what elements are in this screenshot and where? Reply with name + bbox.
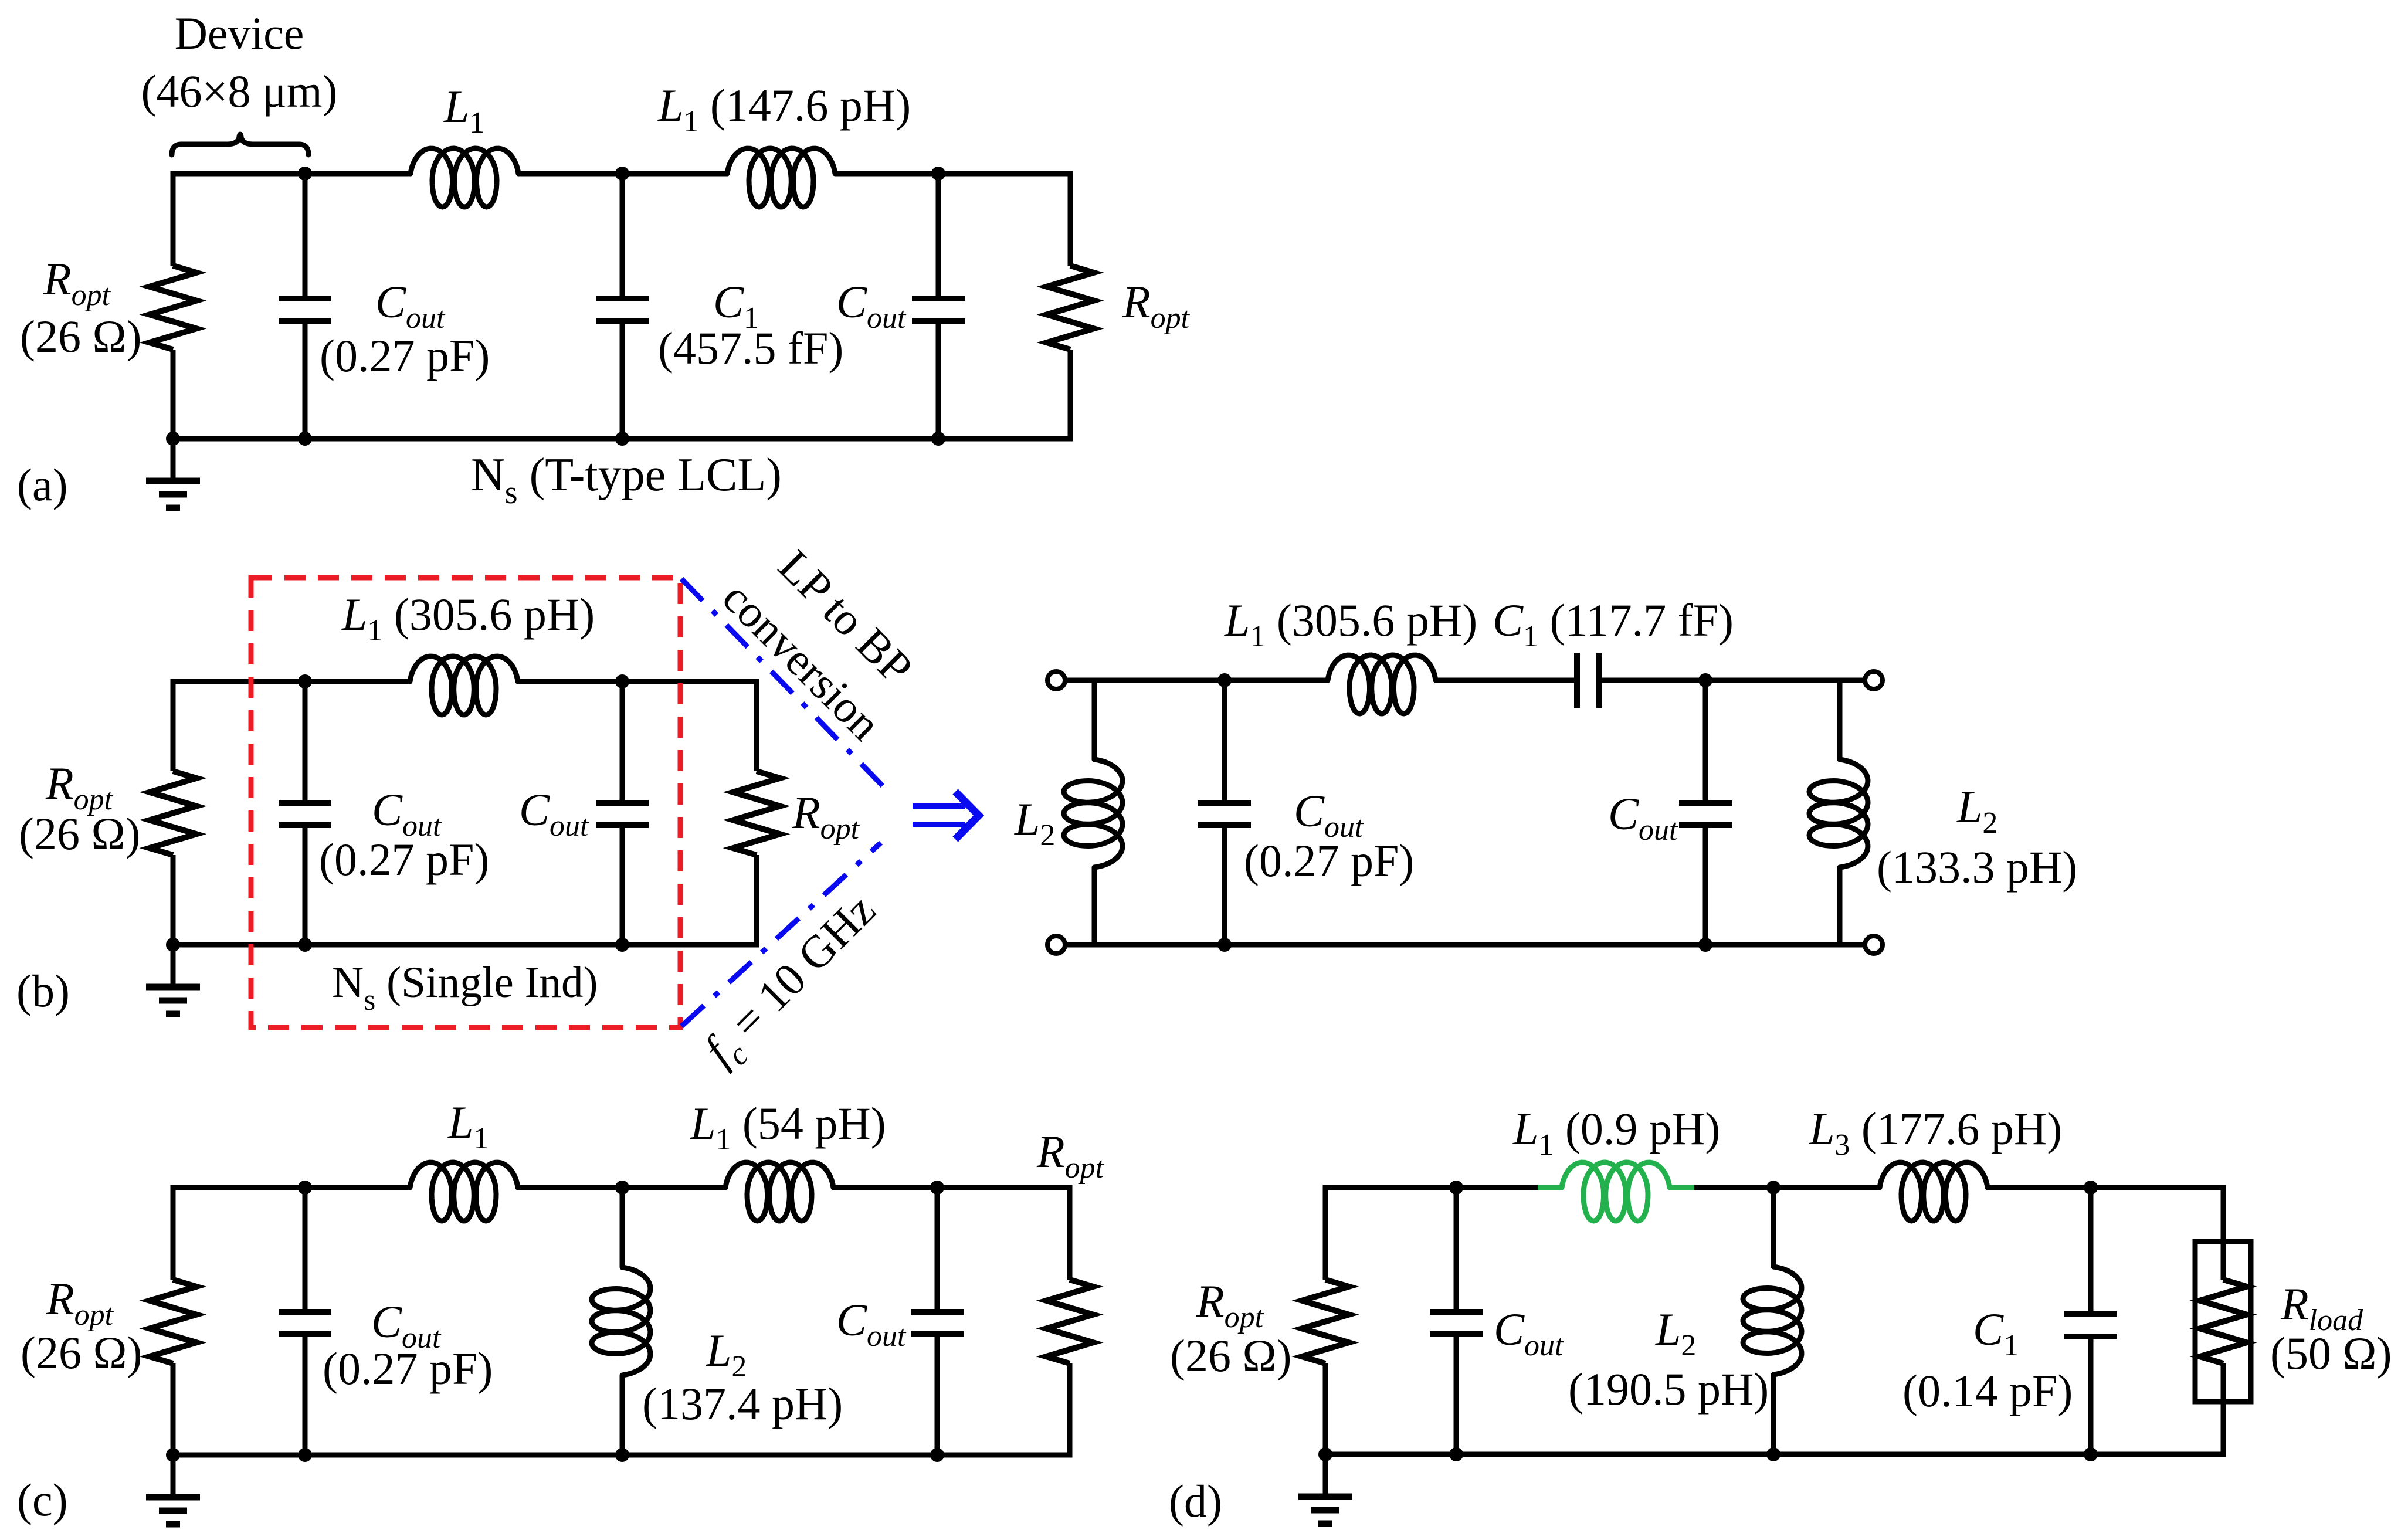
node (d) bottom junction 3	[2084, 1447, 2098, 1461]
wire (d) green stub right	[1669, 1185, 1694, 1190]
node (b) bottom junction 2	[615, 938, 629, 952]
wire (a) right vertical upper	[1068, 174, 1073, 266]
resistor Ropt (d)	[1302, 1280, 1349, 1363]
resistor Ropt (a) right	[1047, 266, 1094, 350]
resistor Ropt (c) right	[1046, 1280, 1093, 1363]
wire (br) L2 right upper stub	[1837, 680, 1843, 759]
svg-text:(a): (a)	[17, 459, 68, 510]
svg-text:(26 Ω): (26 Ω)	[19, 808, 140, 859]
node (b) top junction 1	[298, 674, 312, 688]
inductor L1 (a) second (147.6 pH)	[727, 148, 835, 207]
wire (c) left vertical lower	[171, 1363, 176, 1455]
wire (d) top rail segment 1	[1323, 1185, 1538, 1190]
wire (d) right vertical upper	[2221, 1188, 2226, 1242]
wire (br) top rail segment 1	[1065, 678, 1328, 683]
capacitor C1 (d) (0.14 pF)	[2088, 1188, 2094, 1314]
wire (d) green stub left	[1538, 1185, 1562, 1190]
resistor Rload (d) (50 Ω)	[2200, 1280, 2247, 1363]
terminal (b) bottom-right	[1865, 936, 1883, 954]
node (a) bottom junction 2	[615, 432, 629, 446]
inductor L3 (d) (177.6 pH)	[1880, 1162, 1988, 1221]
wire (d) Rload inner lower	[2221, 1363, 2226, 1402]
inductor L1 (br) (305.6 pH)	[1328, 655, 1436, 714]
resistor Ropt (b) left	[150, 771, 196, 855]
wire (d) L2 upper stub	[1771, 1188, 1776, 1267]
wire (d) L2 lower stub	[1771, 1375, 1776, 1454]
ground (a)	[171, 439, 176, 481]
wire (b) top rail segment 1	[171, 679, 411, 684]
svg-text:(46×8 μm): (46×8 μm)	[141, 66, 338, 117]
node (c) bottom junction 2	[615, 1448, 629, 1462]
node (br) top junction 2	[1698, 673, 1712, 687]
wire (br) top rail segment 2	[1436, 678, 1577, 683]
node (br) top junction 1	[1217, 673, 1232, 687]
wire (a) right vertical lower	[1068, 350, 1073, 439]
node (c) bottom junction 3	[930, 1448, 944, 1462]
inductor L1 (d) green (0.9 pH)	[1562, 1162, 1670, 1221]
inductor L1 (c) second (54 pH)	[725, 1162, 833, 1221]
wire (d) right vertical lower	[2221, 1402, 2226, 1454]
svg-text:(0.27 pF): (0.27 pF)	[319, 834, 489, 885]
label fc = 10 GHz (rotated)	[694, 884, 891, 1081]
node (a) top junction 2	[615, 167, 629, 181]
capacitor C1 (br) series (117.7 fF)	[1577, 653, 1599, 708]
node (a) bottom junction 1	[298, 432, 312, 446]
wire (c) L2 lower stub	[620, 1375, 625, 1455]
node (d) top junction 2	[1766, 1181, 1780, 1195]
inductor L2 (d) (190.5 pH)	[1743, 1267, 1802, 1375]
node (c) bottom ground junction	[166, 1448, 180, 1462]
terminal (b) top-left	[1047, 671, 1065, 689]
inductor L2 (br) right	[1809, 759, 1868, 867]
node (d) top junction 3	[2084, 1181, 2098, 1195]
wire (d) left vertical upper	[1323, 1188, 1328, 1280]
node (c) top junction 3	[930, 1181, 944, 1195]
wire (c) right vertical upper	[1067, 1188, 1073, 1280]
node (d) bottom junction 2	[1766, 1447, 1780, 1461]
wire (c) top rail segment 3	[833, 1185, 1073, 1190]
svg-text:(0.14 pF): (0.14 pF)	[1902, 1365, 2073, 1416]
node (a) top junction 1	[298, 167, 312, 181]
wire (b) left vertical upper	[171, 681, 176, 771]
svg-text:(137.4 pH): (137.4 pH)	[642, 1378, 843, 1429]
node (b) bottom junction 1	[298, 938, 312, 952]
svg-text:(26 Ω): (26 Ω)	[21, 1327, 142, 1378]
wire (c) left vertical upper	[171, 1188, 176, 1280]
svg-text:(0.27 pF): (0.27 pF)	[1244, 835, 1414, 886]
svg-text:(d): (d)	[1169, 1475, 1222, 1527]
terminal (b) top-right	[1865, 671, 1883, 689]
wire (c) top rail segment 2	[518, 1185, 725, 1190]
blue dash-dot line lower	[681, 843, 881, 1026]
wire (b) right vertical lower	[754, 855, 759, 945]
wire (b) right vertical upper	[754, 681, 759, 771]
box around Rload	[2195, 1242, 2251, 1402]
node (c) top junction 2	[615, 1181, 629, 1195]
svg-text:(190.5 pH): (190.5 pH)	[1568, 1363, 1769, 1415]
node (br) bottom junction 1	[1217, 938, 1232, 952]
capacitor Cout (br) left	[1222, 680, 1227, 803]
resistor Ropt (b) right	[733, 771, 780, 855]
svg-text:(50 Ω): (50 Ω)	[2270, 1328, 2391, 1379]
node (d) bottom junction 1	[1449, 1447, 1463, 1461]
svg-text:Device: Device	[175, 8, 304, 59]
capacitor Cout (br) right	[1703, 680, 1708, 803]
wire (c) top rail segment 1	[171, 1185, 411, 1190]
node (a) top junction 3	[931, 167, 945, 181]
ground (d)	[1323, 1454, 1328, 1497]
inductor L1 (a) first	[411, 148, 518, 207]
wire (a) bottom rail	[171, 436, 1073, 442]
wire (c) bottom rail	[171, 1453, 1073, 1458]
capacitor Cout (b) left	[303, 681, 308, 803]
wire (b) bottom rail	[171, 942, 759, 948]
wire (d) top rail segment 3	[1988, 1185, 2226, 1190]
blue double arrow	[913, 792, 979, 839]
wire (d) Rload inner upper	[2221, 1242, 2226, 1280]
wire (c) L2 upper stub	[620, 1188, 625, 1267]
node (b) bottom ground junction	[166, 938, 180, 952]
svg-text:(c): (c)	[17, 1474, 68, 1525]
blue dash-dot line upper	[681, 579, 883, 786]
red dashed box around Ns network	[251, 578, 680, 1027]
wire (d) bottom rail	[1323, 1452, 2226, 1457]
node (c) bottom junction 1	[298, 1448, 312, 1462]
svg-text:(133.3 pH): (133.3 pH)	[1877, 842, 2077, 893]
capacitor Cout (d)	[1454, 1188, 1459, 1312]
svg-text:(0.27 pF): (0.27 pF)	[320, 330, 490, 381]
node (br) bottom junction 2	[1698, 938, 1712, 952]
wire (d) top rail segment 2	[1694, 1185, 1880, 1190]
wire (d) left vertical lower	[1323, 1363, 1328, 1454]
wire (br) L2 left upper stub	[1092, 680, 1097, 759]
capacitor C1 (a) (457.5 fF)	[620, 174, 625, 298]
terminal (b) bottom-left	[1047, 936, 1065, 954]
inductor L1 (c) first	[410, 1162, 518, 1221]
wire (a) top rail segment 3	[835, 171, 1073, 177]
wire (a) top rail segment 2	[518, 171, 727, 177]
svg-text:(26 Ω): (26 Ω)	[20, 311, 141, 362]
wire (c) right vertical lower	[1067, 1363, 1073, 1455]
wire (b) top rail segment 2	[518, 679, 759, 684]
node (a) bottom ground junction	[166, 432, 180, 446]
wire (a) left vertical upper	[171, 174, 176, 266]
wire (br) top rail segment 3	[1599, 678, 1865, 683]
label LP to BP conversion (rotated)	[713, 528, 935, 749]
wire (b) left vertical lower	[171, 855, 176, 945]
node (c) top junction 1	[298, 1181, 312, 1195]
wire (br) L2 right lower stub	[1837, 867, 1843, 945]
wire (br) L2 left lower stub	[1092, 867, 1097, 945]
svg-text:(b): (b)	[16, 965, 70, 1016]
node (d) top junction 1	[1449, 1181, 1463, 1195]
svg-text:(0.27 pF): (0.27 pF)	[323, 1343, 493, 1394]
ground (c)	[171, 1455, 176, 1497]
capacitor Cout (c) right	[935, 1188, 940, 1312]
wire (a) top rail segment 1	[171, 171, 411, 177]
wire (a) left vertical lower	[171, 350, 176, 439]
capacitor Cout (b) right	[620, 681, 625, 803]
inductor L1 (b) (305.6 pH)	[410, 656, 518, 715]
brace device extent	[172, 134, 308, 155]
inductor L2 (br) left	[1064, 759, 1122, 867]
capacitor Cout (c) left	[303, 1188, 308, 1312]
node (b) top junction 2	[615, 674, 629, 688]
capacitor Cout (a)	[303, 174, 308, 298]
wire (br) bottom rail	[1065, 942, 1865, 948]
resistor Ropt (c) left	[150, 1280, 196, 1363]
capacitor Cout (a) second	[936, 174, 941, 298]
resistor Ropt (a) left	[150, 266, 196, 350]
node (a) bottom junction 3	[931, 432, 945, 446]
svg-text:(457.5 fF): (457.5 fF)	[658, 323, 843, 374]
ground (b)	[171, 945, 176, 987]
inductor L2 (c) (137.4 pH)	[592, 1267, 650, 1375]
node (d) bottom ground junction	[1318, 1447, 1332, 1461]
svg-text:(26 Ω): (26 Ω)	[1170, 1330, 1291, 1381]
